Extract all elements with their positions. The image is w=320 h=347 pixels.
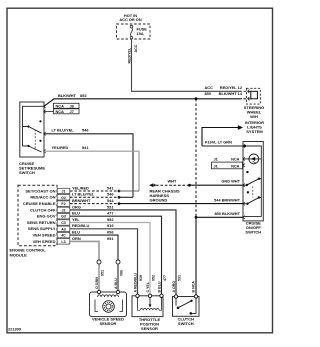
svg-text:4C: 4C (61, 234, 66, 238)
svg-text:F19VL LT GRN: F19VL LT GRN (205, 140, 232, 145)
svg-text:J1: J1 (62, 190, 66, 194)
svg-text:096: 096 (107, 230, 114, 235)
svg-text:546: 546 (82, 128, 89, 133)
svg-text:850 BLK/WHT: 850 BLK/WHT (214, 211, 240, 216)
svg-text:SENS RETURN: SENS RETURN (27, 220, 56, 225)
svg-text:096: 096 (120, 270, 124, 276)
svg-text:J2: J2 (62, 208, 66, 212)
svg-text:544 BRN/WHT: 544 BRN/WHT (214, 198, 241, 203)
svg-text:477: 477 (163, 275, 167, 281)
svg-text:952: 952 (107, 217, 114, 222)
svg-text:531: 531 (178, 275, 182, 281)
svg-text:L3: L3 (61, 240, 65, 244)
svg-text:919: 919 (107, 223, 114, 228)
svg-text:B BLU: B BLU (157, 281, 161, 292)
svg-text:952: 952 (152, 275, 156, 281)
svg-text:C3: C3 (61, 221, 66, 225)
svg-text:ACC: ACC (134, 44, 138, 52)
svg-text:LT BLU/YEL: LT BLU/YEL (52, 128, 75, 133)
svg-text:SWITCH: SWITCH (19, 170, 35, 175)
svg-text:LT BLU/YEL: LT BLU/YEL (72, 192, 95, 197)
svg-text:C YEL: C YEL (146, 281, 150, 292)
svg-text:RED/YEL 12: RED/YEL 12 (220, 85, 243, 90)
svg-text:G3: G3 (61, 215, 66, 219)
svg-text:GND WHT: GND WHT (221, 179, 240, 184)
svg-text:544: 544 (107, 198, 114, 203)
svg-text:RED/BLU: RED/BLU (72, 223, 89, 228)
svg-text:BLK/WHT: BLK/WHT (58, 93, 77, 98)
svg-text:SENS SUPPLY: SENS SUPPLY (28, 226, 56, 231)
svg-text:W/H: W/H (250, 114, 258, 119)
svg-text:850: 850 (205, 91, 212, 96)
svg-text:A RED/BLU: A RED/BLU (133, 273, 137, 293)
svg-text:CLUTCH OFF: CLUTCH OFF (30, 207, 56, 212)
svg-text:NCA: NCA (56, 109, 65, 114)
svg-text:BLU: BLU (72, 211, 80, 216)
svg-text:J7: J7 (70, 109, 74, 114)
svg-text:GRN: GRN (72, 236, 81, 241)
svg-text:SWITCH: SWITCH (178, 321, 194, 326)
svg-text:NCA: NCA (231, 156, 240, 161)
svg-text:ACC: ACC (205, 85, 214, 90)
svg-text:546: 546 (107, 192, 114, 197)
svg-text:541: 541 (82, 145, 89, 150)
svg-text:BRN/WHT: BRN/WHT (72, 198, 91, 203)
svg-text:NCA: NCA (56, 103, 65, 108)
svg-text:O GRN: O GRN (95, 277, 99, 289)
svg-text:BLU: BLU (72, 230, 80, 235)
svg-text:B NCA: B NCA (191, 281, 195, 293)
svg-text:YEL/RED: YEL/RED (72, 185, 89, 190)
svg-text:ACC OR ON: ACC OR ON (119, 17, 141, 22)
svg-text:GROUND: GROUND (150, 198, 168, 203)
svg-text:853: 853 (80, 93, 87, 98)
svg-text:VEH SPEED: VEH SPEED (33, 233, 56, 238)
svg-text:SENSOR: SENSOR (100, 321, 117, 326)
svg-text:RED/YEL: RED/YEL (127, 47, 131, 63)
svg-text:541: 541 (107, 185, 114, 190)
svg-text:VEH SPEED: VEH SPEED (33, 239, 56, 244)
svg-text:531: 531 (107, 204, 114, 209)
svg-text:SYSTEM: SYSTEM (246, 129, 263, 134)
svg-text:YEL/RED: YEL/RED (52, 145, 69, 150)
svg-text:ENG GOV: ENG GOV (37, 214, 56, 219)
svg-text:A3: A3 (61, 227, 66, 231)
svg-text:CRUISE ENABLE: CRUISE ENABLE (23, 201, 56, 206)
svg-text:MODULE: MODULE (10, 252, 28, 257)
svg-text:15A: 15A (137, 31, 144, 36)
svg-text:477: 477 (107, 211, 114, 216)
svg-text:951: 951 (101, 270, 105, 276)
svg-text:F2: F2 (61, 202, 65, 206)
svg-text:SWITCH: SWITCH (245, 230, 261, 235)
svg-text:RES/ACC ON: RES/ACC ON (30, 195, 55, 200)
svg-text:WHT: WHT (168, 179, 177, 184)
svg-text:951: 951 (107, 236, 114, 241)
svg-text:919: 919 (139, 275, 143, 281)
svg-text:NCA: NCA (231, 163, 240, 168)
svg-text:SENSOR: SENSOR (141, 326, 158, 331)
svg-text:ORG: ORG (72, 204, 81, 209)
svg-text:YEL: YEL (72, 217, 80, 222)
svg-text:G2: G2 (61, 196, 66, 200)
svg-text:A ORG: A ORG (172, 281, 176, 293)
svg-text:BLK/WHT 14: BLK/WHT 14 (219, 91, 243, 96)
svg-text:221399: 221399 (8, 327, 22, 332)
svg-text:SET/COAST ON: SET/COAST ON (25, 188, 55, 193)
svg-text:A BLU: A BLU (114, 278, 118, 289)
